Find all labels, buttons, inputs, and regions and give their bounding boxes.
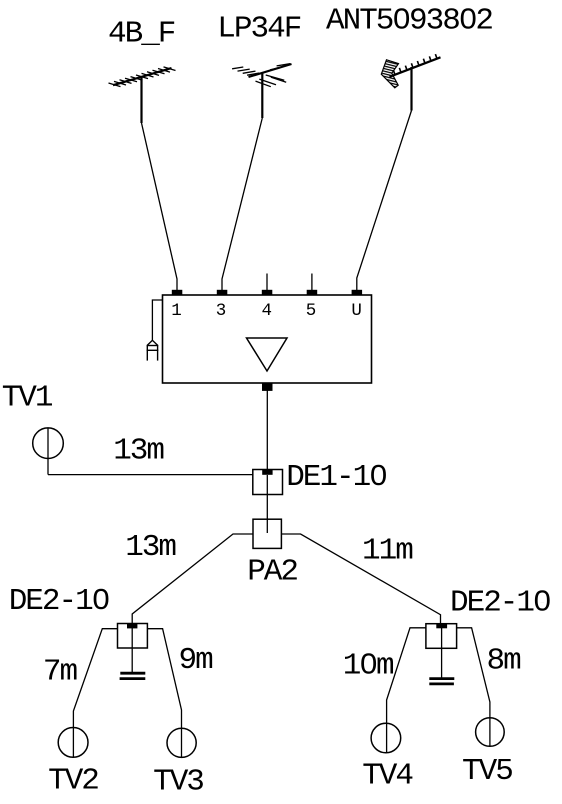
svg-text:4B_F: 4B_F xyxy=(108,17,175,52)
stub wire above terminal 4 xyxy=(266,274,268,291)
wire right DE2-10 to TV4, 10m xyxy=(387,628,426,753)
antenna ANT2 elements xyxy=(232,64,290,87)
svg-text:13m: 13m xyxy=(125,530,176,565)
svg-text:8m: 8m xyxy=(487,644,522,679)
svg-text:3: 3 xyxy=(216,301,227,321)
svg-text:1: 1 xyxy=(171,301,182,321)
svg-text:LP34F: LP34F xyxy=(217,12,300,47)
svg-text:U: U xyxy=(351,301,362,321)
TV1 outlet circle xyxy=(33,428,64,459)
amplifier input terminal 1 xyxy=(172,290,183,295)
svg-text:10m: 10m xyxy=(343,649,394,684)
tap DE2-10 right box xyxy=(426,624,457,649)
terminator left bottom bar xyxy=(120,677,146,680)
svg-text:DE2-10: DE2-10 xyxy=(450,585,550,620)
tap DE2-10 left box xyxy=(118,624,148,649)
antenna ANT1 elements xyxy=(109,67,176,87)
tap DE2-10 right input terminal xyxy=(436,623,447,628)
wire left DE2-10 to TV3, 9m xyxy=(147,629,181,758)
power plug symbol xyxy=(147,340,159,360)
svg-text:TV4: TV4 xyxy=(362,759,413,794)
svg-text:DE1-10: DE1-10 xyxy=(286,460,386,495)
TV4 outlet circle xyxy=(371,723,401,753)
tap DE1-10 box xyxy=(253,470,283,495)
terminator right top bar xyxy=(429,677,454,680)
antenna ANT2 mast xyxy=(261,73,263,118)
svg-text:11m: 11m xyxy=(362,534,413,569)
wire ANT3 to amplifier input U xyxy=(357,111,412,292)
svg-text:7m: 7m xyxy=(43,655,78,690)
amplifier input terminal U xyxy=(352,290,363,295)
power plug wire xyxy=(152,300,162,340)
svg-text:9m: 9m xyxy=(179,643,214,678)
tap DE2-10 left internal line xyxy=(131,628,133,673)
TV1 stem xyxy=(47,428,49,475)
svg-text:TV5: TV5 xyxy=(462,754,512,789)
amplifier input terminal 3 xyxy=(217,290,228,295)
svg-text:TV1: TV1 xyxy=(2,381,53,416)
antenna ANT3 boom xyxy=(390,57,441,77)
svg-text:TV2: TV2 xyxy=(48,764,98,799)
TV2 outlet circle xyxy=(58,728,88,758)
wire PA2 to right DE2-10, 11m xyxy=(281,534,440,624)
stub wire above terminal 5 xyxy=(311,274,313,291)
amplifier triangle symbol xyxy=(247,338,288,371)
tap DE1-10 input terminal xyxy=(262,469,272,475)
svg-text:DE2-10: DE2-10 xyxy=(9,584,109,619)
wire ANT1 to amplifier input 1 xyxy=(142,123,178,291)
antenna ANT1 boom xyxy=(113,68,172,85)
wire PA2 to left DE2-10, 13m xyxy=(132,534,253,624)
terminator left top bar xyxy=(120,672,145,675)
antenna ANT3 director ticks xyxy=(393,54,437,75)
tap DE2-10 right internal line xyxy=(441,628,443,678)
wire amplifier output to tap DE1-10 xyxy=(266,390,268,469)
TV5 outlet circle xyxy=(476,718,505,747)
wire ANT2 to amplifier input 3 xyxy=(222,118,262,291)
wire left DE2-10 to TV2, 7m xyxy=(73,629,117,758)
amplifier input terminal 4 xyxy=(262,290,273,295)
tap DE2-10 left input terminal xyxy=(127,623,137,628)
svg-text:TV3: TV3 xyxy=(153,765,203,800)
svg-text:13m: 13m xyxy=(113,434,164,469)
wire DE1-10 to splitter PA2 xyxy=(266,475,268,533)
antenna ANT3 reflector xyxy=(381,60,398,88)
svg-text:4: 4 xyxy=(262,301,273,321)
svg-text:5: 5 xyxy=(306,301,317,321)
amplifier output terminal xyxy=(262,383,273,391)
wire right DE2-10 to TV5, 8m xyxy=(457,628,490,747)
antenna ANT2 boom xyxy=(249,64,292,77)
TV3 outlet circle xyxy=(167,728,196,757)
terminator right bottom bar xyxy=(429,683,454,686)
antenna ANT3 mast xyxy=(410,67,412,111)
svg-text:ANT5093802: ANT5093802 xyxy=(326,4,492,39)
amplifier input terminal 5 xyxy=(307,290,318,295)
antenna ANT1 mast xyxy=(140,76,142,123)
svg-text:PA2: PA2 xyxy=(247,555,297,590)
splitter PA2 box xyxy=(253,519,281,548)
amplifier U1 box xyxy=(163,295,372,383)
wire TV1 to DE1-10, 13m xyxy=(48,474,253,476)
